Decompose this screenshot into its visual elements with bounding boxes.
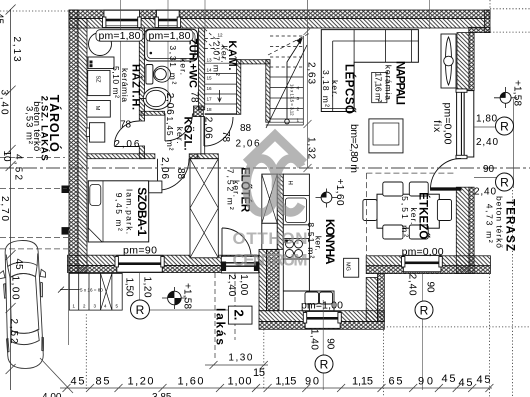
R circle fix window <box>496 117 514 135</box>
R circle terrace door <box>496 173 514 191</box>
wall top-right corner cap crosshatch <box>485 10 490 33</box>
room label HÁZT.H. <box>111 64 143 110</box>
wall bottom band (szoba + entry) diagonal <box>68 255 260 265</box>
chairs top <box>383 182 403 196</box>
svg-text:3,40: 3,40 <box>0 90 10 115</box>
shower tray <box>145 29 198 61</box>
door arc terrace <box>431 159 462 191</box>
room label KÖZL. <box>165 117 195 151</box>
room label TERASZ <box>485 196 516 251</box>
svg-text:78: 78 <box>189 91 200 103</box>
sink bowls <box>305 292 319 304</box>
dotted terrace outline <box>384 326 530 328</box>
stair break line <box>266 45 307 128</box>
svg-text:1,20: 1,20 <box>128 376 154 388</box>
svg-text:45: 45 <box>13 259 24 271</box>
wall pier crosshatch right of szoba door <box>189 154 198 159</box>
pm bubble window2 <box>146 30 193 42</box>
extension line window1 center <box>120 0 122 130</box>
svg-text:M: M <box>94 106 100 111</box>
room label LÉPCSŐ <box>321 64 356 114</box>
svg-text:16 x 17,5 = 3,12: 16 x 17,5 = 3,12 <box>290 84 295 116</box>
svg-text:45: 45 <box>442 373 456 385</box>
door arc stairs-közl <box>204 117 233 146</box>
wall zuh bottom piece <box>141 111 164 115</box>
svg-text:65: 65 <box>389 376 403 388</box>
svg-text:NAPPALI: NAPPALI <box>394 61 406 105</box>
svg-text:fix: fix <box>431 120 443 133</box>
window W4 kitchen bump (pm=1,00) <box>303 311 341 328</box>
left dimension column line <box>6 5 16 391</box>
svg-text:90: 90 <box>425 282 436 294</box>
svg-text:R: R <box>500 176 509 190</box>
extension line sofa right <box>429 0 431 29</box>
svg-text:LÉPCSŐ: LÉPCSŐ <box>343 64 356 114</box>
extension line dining window center <box>422 272 424 390</box>
dotted roof line top left <box>0 10 69 12</box>
svg-text:1,00: 1,00 <box>228 376 252 388</box>
window W1 top (pm=1,80 left) <box>103 10 142 27</box>
room label KONYHA <box>306 219 337 265</box>
svg-text:5,51 m²: 5,51 m² <box>400 196 410 237</box>
svg-text:13: 13 <box>207 58 213 63</box>
extension line window2 center <box>167 0 169 112</box>
extension line kitchen window center <box>322 300 324 390</box>
svg-text:7,52 m²: 7,52 m² <box>226 169 236 210</box>
window W2 top (pm=1,80 right) <box>155 10 181 27</box>
svg-text:17,16 m²: 17,16 m² <box>374 72 384 102</box>
svg-text:15: 15 <box>207 76 213 81</box>
wardrobe X elotér <box>190 159 218 258</box>
dining table <box>377 194 439 228</box>
svg-text:88: 88 <box>240 123 252 134</box>
svg-text:3,85: 3,85 <box>152 392 172 397</box>
svg-text:2,13: 2,13 <box>11 37 22 62</box>
kitchen appliance <box>286 198 307 223</box>
left column dimension texts <box>0 13 24 344</box>
dashed boundary nappali-étkező <box>366 172 456 174</box>
svg-text:16: 16 <box>207 86 213 91</box>
svg-text:3,18 m²: 3,18 m² <box>321 70 331 107</box>
wall right lower crosshatch <box>469 187 474 273</box>
svg-text:2,40: 2,40 <box>226 274 237 296</box>
window W5 dining (pm=0,00) <box>402 255 443 271</box>
leader line fix window labels <box>474 126 498 128</box>
svg-text:R: R <box>320 358 329 372</box>
svg-text:2,06: 2,06 <box>114 139 139 150</box>
svg-text:1,45 m²: 1,45 m² <box>165 117 175 151</box>
svg-text:8,51 m²: 8,51 m² <box>306 222 316 258</box>
pillow <box>90 185 101 206</box>
svg-text:ker.: ker. <box>175 127 185 144</box>
leader line to lakás box <box>140 309 228 311</box>
stair newel wall top band <box>237 60 270 64</box>
sofa L-shape <box>321 30 418 112</box>
svg-text:78: 78 <box>220 131 231 143</box>
door arc házt.h. <box>114 121 139 147</box>
wall pier crosshatch at közl <box>194 106 204 117</box>
svg-text:4,73 m²: 4,73 m² <box>485 204 495 243</box>
entry steps outside <box>58 273 122 310</box>
chairs bottom <box>383 225 403 239</box>
elevation marker right +1,58 <box>494 80 523 108</box>
dotted lines top right <box>490 8 530 10</box>
svg-text:90: 90 <box>483 164 495 175</box>
svg-text:1,80: 1,80 <box>476 114 497 125</box>
wall stair-közl lower partition <box>201 117 205 154</box>
bed <box>88 181 148 242</box>
wall right upper diagonal <box>457 33 469 91</box>
svg-text:12: 12 <box>218 33 224 38</box>
wall bottom band crosshatch <box>68 266 260 273</box>
svg-text:pm=1,00: pm=1,00 <box>301 300 343 312</box>
R circle kitchen window <box>315 355 333 373</box>
svg-text:2,07 m²: 2,07 m² <box>212 42 222 76</box>
dimension line 2,63/1,32 <box>304 0 312 172</box>
nightstand <box>149 181 162 193</box>
elevation marker entry +1,58 <box>162 283 193 309</box>
room label TÁROLÓ <box>24 95 63 161</box>
svg-text:2: 2 <box>297 107 300 112</box>
room label KAM. <box>212 40 239 75</box>
wall entry-kitchen column crosshatch strip <box>267 249 280 310</box>
svg-text:5,10 m²: 5,10 m² <box>111 66 121 98</box>
svg-text:bm=2,80 m: bm=2,80 m <box>348 124 360 173</box>
stair treads dashed above cut (kam) <box>205 29 237 60</box>
extension line stair wall <box>204 0 206 28</box>
dotted vertical at kitchen corner <box>263 329 265 390</box>
room label SZOBA-1 <box>114 187 149 236</box>
watermark letter O <box>247 159 277 213</box>
R circle szoba window <box>131 300 150 319</box>
room label ELŐTÉR <box>226 167 252 213</box>
stair up arrow <box>285 39 302 124</box>
svg-text:45: 45 <box>459 377 473 389</box>
svg-text:CENTRUM: CENTRUM <box>233 251 308 270</box>
svg-text:kerámia: kerámia <box>384 65 394 100</box>
házt.h. basin <box>90 123 105 142</box>
washing machine <box>89 33 112 56</box>
svg-text:pm=0,00: pm=0,00 <box>402 246 444 258</box>
svg-text:1,20: 1,20 <box>142 277 153 298</box>
kam leader arrow <box>218 90 222 102</box>
extension line szoba window center <box>138 273 140 304</box>
svg-text:1,00: 1,00 <box>238 274 249 295</box>
svg-text:1,00: 1,00 <box>10 276 21 300</box>
blanket fold <box>88 228 102 242</box>
stair treads right flight dashed above <box>270 36 303 67</box>
stair newel wall left band <box>237 60 241 115</box>
svg-text:4: 4 <box>297 86 300 91</box>
svg-text:KONYHA: KONYHA <box>323 219 337 265</box>
svg-text:SZ: SZ <box>95 75 101 83</box>
svg-text:2,06: 2,06 <box>159 157 170 179</box>
R circle dining window <box>415 301 433 319</box>
watermark letter C <box>276 159 302 213</box>
svg-text:15: 15 <box>253 367 265 379</box>
svg-text:85: 85 <box>96 376 110 388</box>
cabinet SZ <box>88 70 110 95</box>
black squares on left wall <box>62 186 70 194</box>
window W3 szoba bottom (pm=90) <box>115 255 164 272</box>
svg-text:9,45 m²: 9,45 m² <box>114 193 124 231</box>
wall partition elotér-konyha <box>277 174 283 249</box>
svg-text:10: 10 <box>1 151 12 163</box>
parking diagonal <box>40 358 73 393</box>
svg-text:1,50: 1,50 <box>124 278 135 297</box>
room label NAPPALI <box>374 61 406 105</box>
wall dining bottom band diagonal <box>366 256 490 266</box>
svg-text:3,31 m²: 3,31 m² <box>168 45 178 84</box>
házt.h. counter <box>88 57 114 69</box>
wall wardrobe top cap <box>198 154 219 159</box>
svg-text:H: H <box>287 181 293 185</box>
svg-text:45: 45 <box>71 376 85 388</box>
wall partition házt-zuh upper <box>139 28 144 121</box>
svg-text:14: 14 <box>207 68 213 73</box>
svg-text:90: 90 <box>325 338 336 350</box>
svg-text:R: R <box>136 303 145 317</box>
window FIX right wall (pm=0,00 fix 1,80/2,40) <box>456 89 474 159</box>
svg-text:1,32: 1,32 <box>306 137 317 159</box>
wall right upper crosshatch <box>469 33 474 91</box>
chair right <box>437 200 451 221</box>
cabinet X elotér right <box>262 174 277 249</box>
bottom dimension chain line <box>60 384 493 392</box>
svg-text:5 x 16 = 80: 5 x 16 = 80 <box>80 288 103 293</box>
pm bubble window1 <box>96 30 143 42</box>
svg-text:2,40: 2,40 <box>476 137 498 148</box>
svg-text:SZOBA-1: SZOBA-1 <box>135 187 149 236</box>
dashed line left szoba <box>0 188 67 190</box>
dimension line 1,30 entry <box>205 361 268 369</box>
chair left <box>363 200 377 221</box>
wall dining bottom band crosshatch <box>366 266 490 274</box>
svg-text:R: R <box>420 304 429 318</box>
wall partition házt-közl lower piece <box>139 146 144 159</box>
bottom chain dimension texts <box>71 367 491 389</box>
section line dash-dot <box>0 167 530 169</box>
dashed lines near car <box>0 237 68 239</box>
wall kitchen bump right crosshatch <box>378 274 385 322</box>
cabinet M <box>87 101 111 118</box>
stair newel wall right band <box>266 60 270 122</box>
svg-text:4,52: 4,52 <box>13 154 24 180</box>
dotted vertical below steps <box>85 314 87 390</box>
svg-text:lam.park.: lam.park. <box>125 189 135 234</box>
svg-text:45: 45 <box>0 13 5 25</box>
door arc zuh+wc <box>165 114 193 142</box>
svg-text:1,15: 1,15 <box>352 376 373 388</box>
svg-text:+1,60: +1,60 <box>334 179 345 206</box>
svg-text:3,53 m²: 3,53 m² <box>24 106 35 144</box>
svg-text:lakás: lakás <box>214 308 228 345</box>
elevation marker konyha +1,60 <box>316 179 346 208</box>
svg-text:HÁZT.H.: HÁZT.H. <box>130 64 143 110</box>
svg-text:pm=1,80: pm=1,80 <box>99 30 141 42</box>
svg-text:R: R <box>500 120 509 134</box>
svg-text:4,00: 4,00 <box>42 392 62 397</box>
svg-text:OTTHON: OTTHON <box>233 229 308 248</box>
svg-text:90: 90 <box>305 376 319 388</box>
svg-text:1,15: 1,15 <box>275 376 296 388</box>
svg-text:1: 1 <box>297 118 300 123</box>
dashed verticals at entry <box>214 273 216 360</box>
svg-text:pm=90: pm=90 <box>123 245 157 257</box>
tv stand <box>372 72 387 102</box>
svg-text:3: 3 <box>297 96 300 101</box>
watermark logo roof chevron <box>246 135 304 163</box>
svg-text:2,06: 2,06 <box>164 93 175 115</box>
wall közl bottom band <box>87 154 155 159</box>
svg-text:2,63: 2,63 <box>306 62 317 84</box>
toilet <box>146 65 171 85</box>
stair dashed diagonal above <box>268 33 310 55</box>
svg-text:+1,58: +1,58 <box>512 80 523 106</box>
parking boundary line <box>68 230 70 345</box>
wall top exterior (masonry diagonal layer) <box>69 19 485 29</box>
stair numbers right flight <box>297 86 300 123</box>
svg-text:ker.: ker. <box>179 58 189 75</box>
kitchen counter <box>283 174 334 311</box>
svg-text:pm=1,80: pm=1,80 <box>149 30 191 42</box>
apartment label 2. lakás <box>214 306 253 345</box>
dishwasher MG box <box>344 258 359 277</box>
svg-text:2,40: 2,40 <box>407 274 418 296</box>
svg-text:MG: MG <box>345 262 351 271</box>
wall left exterior diagonal layer <box>78 19 87 273</box>
svg-text:+1,58: +1,58 <box>182 283 193 309</box>
wall right lower diagonal <box>456 187 469 273</box>
svg-text:beton térkő: beton térkő <box>495 196 505 248</box>
room label ÉTKEZŐ <box>400 192 430 239</box>
room label ZUH.+WC <box>168 38 199 88</box>
right marker dimension line <box>513 99 515 188</box>
svg-text:2,40: 2,40 <box>474 187 496 198</box>
wall left exterior crosshatch layer <box>69 10 78 273</box>
washbasin zuh <box>140 88 171 110</box>
stair treads left flight <box>205 63 237 114</box>
svg-text:45: 45 <box>477 374 491 386</box>
svg-text:17: 17 <box>207 97 213 102</box>
car top view <box>0 240 49 370</box>
stove burners <box>286 240 303 258</box>
svg-text:88: 88 <box>175 168 186 180</box>
entry door leaf in wall (1,00/2,40) <box>221 256 258 273</box>
svg-text:2,06: 2,06 <box>203 117 214 139</box>
svg-text:1,40: 1,40 <box>309 329 320 350</box>
stair treads right flight <box>266 36 304 125</box>
svg-text:2,70: 2,70 <box>0 196 10 221</box>
svg-text:2.: 2. <box>232 310 247 321</box>
door arc entry <box>222 228 251 257</box>
wall kitchen bump right diagonal <box>366 278 377 322</box>
svg-text:1,60: 1,60 <box>178 376 204 388</box>
svg-text:18: 18 <box>207 107 213 112</box>
wall entry-kitchen column diagonal <box>259 249 267 310</box>
door arc szoba-1 <box>158 159 190 191</box>
wall top exterior (insulation crosshatch layer) <box>69 10 490 19</box>
coffee table <box>369 119 403 153</box>
dashed boundary konyha-étkező <box>365 173 367 258</box>
wall stair west partition <box>199 28 205 110</box>
wall kitchen bump bottom crosshatch <box>259 322 384 330</box>
svg-text:2,52: 2,52 <box>8 319 19 344</box>
dashed line left at közl wall level <box>0 157 65 159</box>
stair tread numbers 12-18 <box>207 33 224 113</box>
radiator <box>441 34 456 88</box>
svg-text:78: 78 <box>120 120 132 131</box>
wall kitchen bump bottom diagonal <box>259 311 384 322</box>
svg-text:1,30: 1,30 <box>228 353 252 364</box>
